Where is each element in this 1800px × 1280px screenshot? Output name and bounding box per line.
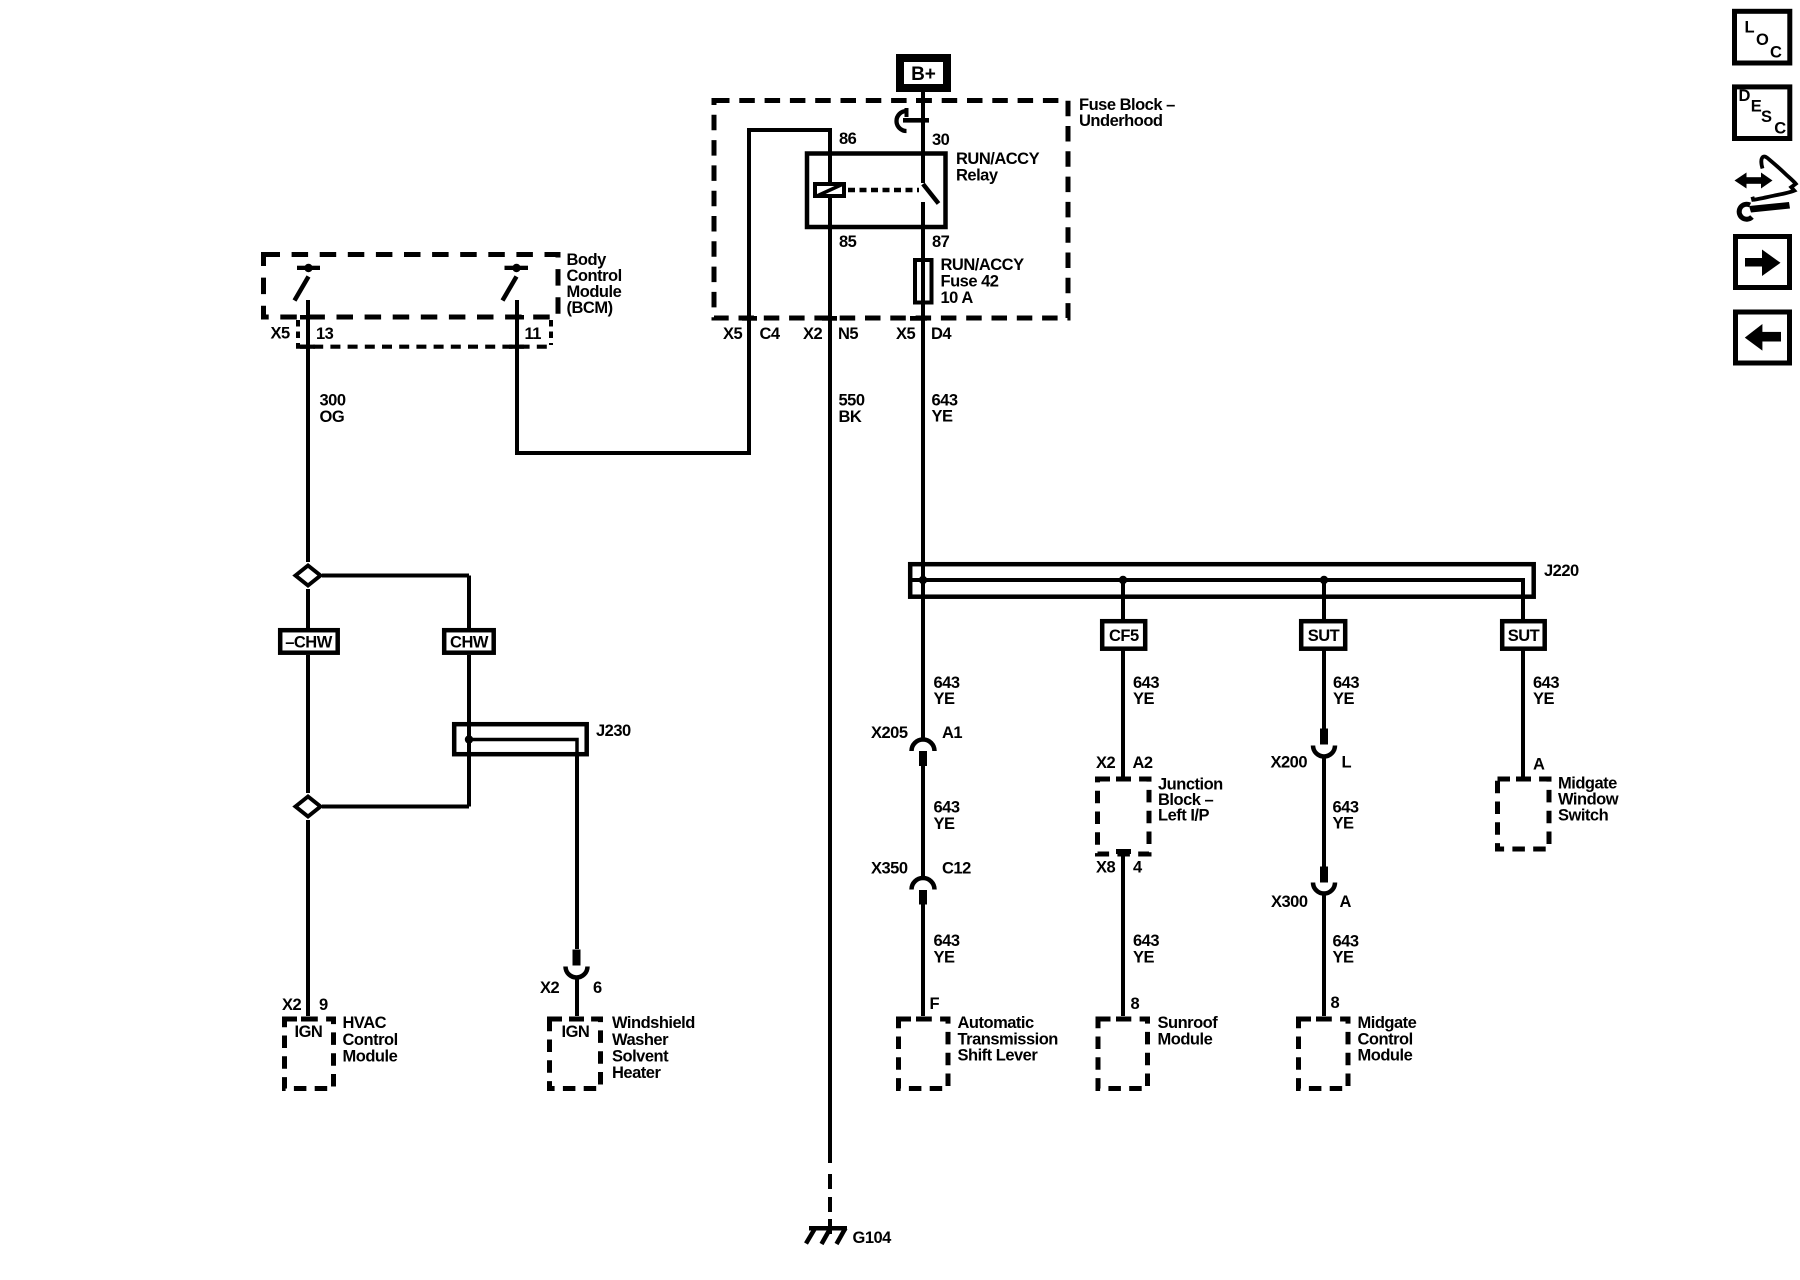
svg-text:S: S xyxy=(1761,108,1772,126)
wire CF5 to junction block xyxy=(1121,649,1125,778)
in-line connector X350 C12 xyxy=(912,878,935,905)
relay switch armature xyxy=(923,184,939,204)
svg-text:YE: YE xyxy=(934,949,956,967)
wire relay pin 85 down (550 BK) xyxy=(828,196,832,1163)
svg-text:YE: YE xyxy=(1133,690,1155,708)
svg-text:IGN: IGN xyxy=(295,1023,323,1041)
svg-text:Heater: Heater xyxy=(612,1064,661,1082)
svg-text:A: A xyxy=(1340,893,1352,911)
splice diamond 2 xyxy=(296,797,321,817)
midgate control module box xyxy=(1299,1019,1349,1089)
svg-text:YE: YE xyxy=(1333,690,1355,708)
svg-text:4: 4 xyxy=(1133,859,1143,877)
svg-text:643: 643 xyxy=(934,799,960,817)
wire diamond2 right branch xyxy=(322,805,469,809)
svg-text:J220: J220 xyxy=(1544,562,1579,580)
svg-text:O: O xyxy=(1756,31,1769,49)
svg-text:X205: X205 xyxy=(871,724,908,742)
svg-text:HVAC: HVAC xyxy=(343,1014,387,1032)
sidebar forward arrow button xyxy=(1736,237,1790,288)
svg-text:B+: B+ xyxy=(911,64,936,85)
svg-text:OG: OG xyxy=(320,408,345,426)
wire CHW branch down through J230 xyxy=(467,576,471,807)
in-line connector X300 A xyxy=(1313,867,1335,894)
ground G104 xyxy=(806,1226,847,1244)
RUN/ACCY fuse 42 symbol xyxy=(915,260,932,303)
svg-text:BK: BK xyxy=(839,408,862,426)
svg-text:(BCM): (BCM) xyxy=(567,299,613,317)
svg-text:L: L xyxy=(1342,754,1352,772)
svg-text:D4: D4 xyxy=(931,325,952,343)
power terminal B+ xyxy=(896,54,951,92)
svg-text:13: 13 xyxy=(316,325,334,343)
sidebar DESC button xyxy=(1735,87,1790,139)
junction block left IP dashed box xyxy=(1098,779,1150,854)
svg-text:Washer: Washer xyxy=(612,1031,669,1049)
svg-text:87: 87 xyxy=(932,233,950,251)
washer solvent heater box xyxy=(550,1019,601,1089)
svg-text:6: 6 xyxy=(593,979,602,997)
wire -CHW to diamond 2 xyxy=(306,655,310,793)
wire J220 to SUT1 xyxy=(1322,580,1326,619)
wire J220 to CF5 xyxy=(1121,580,1125,619)
svg-text:X2: X2 xyxy=(282,996,302,1014)
svg-text:C4: C4 xyxy=(760,325,781,343)
fusible link SUT box 1 xyxy=(1301,621,1345,649)
svg-text:YE: YE xyxy=(1333,815,1355,833)
wire B+ to relay pin 30 xyxy=(921,92,925,183)
RUN/ACCY relay box xyxy=(807,154,946,228)
svg-text:Windshield: Windshield xyxy=(612,1014,695,1032)
midgate window switch box xyxy=(1498,779,1550,849)
svg-text:85: 85 xyxy=(839,233,857,251)
svg-text:G104: G104 xyxy=(853,1229,893,1247)
fusible link CF5 box xyxy=(1102,621,1145,649)
in-line connector X2 6 xyxy=(566,950,588,978)
fusible link -CHW box xyxy=(280,630,338,653)
wire BCM pin 13 down (300 OG) xyxy=(306,300,310,562)
svg-text:C12: C12 xyxy=(942,860,971,878)
svg-text:8: 8 xyxy=(1131,995,1140,1013)
svg-text:11: 11 xyxy=(525,325,542,343)
BCM switch pin 13 xyxy=(295,264,321,301)
junction bar J220 xyxy=(910,564,1533,599)
wire X205 to X350 xyxy=(921,766,925,878)
svg-text:Solvent: Solvent xyxy=(612,1048,669,1066)
fuse block underhood dashed box xyxy=(714,101,1068,319)
svg-text:Left I/P: Left I/P xyxy=(1158,807,1209,825)
wire connector to washer box xyxy=(575,977,579,1016)
svg-text:X5: X5 xyxy=(723,325,743,343)
wire diamond1 to CHW branch xyxy=(322,574,469,578)
svg-text:SUT: SUT xyxy=(1508,627,1540,645)
svg-text:Shift Lever: Shift Lever xyxy=(958,1047,1039,1065)
svg-text:X2: X2 xyxy=(803,325,823,343)
svg-text:Control: Control xyxy=(343,1031,398,1049)
svg-text:10 A: 10 A xyxy=(941,289,974,307)
fusible link CHW box xyxy=(444,630,494,653)
svg-text:X2: X2 xyxy=(1096,754,1116,772)
svg-text:YE: YE xyxy=(1333,949,1355,967)
sunroof module box xyxy=(1098,1019,1148,1089)
Body Control Module dashed box xyxy=(264,255,559,318)
wire diamond1 to -CHW xyxy=(306,589,310,628)
svg-text:86: 86 xyxy=(839,130,857,148)
svg-text:Module: Module xyxy=(343,1048,398,1066)
svg-text:Switch: Switch xyxy=(1558,807,1609,825)
svg-text:643: 643 xyxy=(1133,932,1159,950)
wire relay pin 87 down through fuse to J220 xyxy=(921,202,925,740)
svg-text:9: 9 xyxy=(319,996,328,1014)
relay dashed actuating link xyxy=(848,188,919,193)
svg-text:643: 643 xyxy=(934,932,960,950)
wire BCM pin 11 to relay pin 86 xyxy=(517,130,830,453)
wire X200 to X300 xyxy=(1322,756,1326,869)
svg-text:Relay: Relay xyxy=(956,167,999,185)
svg-text:X2: X2 xyxy=(540,979,560,997)
wire J220 to SUT2 xyxy=(1521,599,1525,619)
svg-text:RUN/ACCY: RUN/ACCY xyxy=(941,256,1025,274)
svg-text:A1: A1 xyxy=(942,724,962,742)
svg-text:Sunroof: Sunroof xyxy=(1158,1014,1219,1032)
automatic transmission shift lever box xyxy=(899,1019,949,1089)
sidebar LOC button xyxy=(1735,11,1790,63)
svg-text:Module: Module xyxy=(1358,1047,1413,1065)
svg-text:550: 550 xyxy=(839,392,865,410)
svg-text:SUT: SUT xyxy=(1308,627,1340,645)
svg-text:Automatic: Automatic xyxy=(958,1014,1034,1032)
sidebar navigation icon xyxy=(1735,157,1796,220)
wire SUT2 to midgate window switch xyxy=(1521,649,1525,777)
svg-text:Fuse 42: Fuse 42 xyxy=(941,273,999,291)
svg-text:L: L xyxy=(1745,19,1755,37)
sidebar back arrow button xyxy=(1736,312,1790,363)
svg-text:X300: X300 xyxy=(1271,893,1308,911)
svg-text:CHW: CHW xyxy=(450,634,489,652)
svg-text:CF5: CF5 xyxy=(1109,627,1139,645)
wire X350 to shift lever xyxy=(921,904,925,1016)
svg-text:300: 300 xyxy=(320,392,346,410)
BCM switch pin 11 xyxy=(503,264,529,301)
wire X300 to midgate control module xyxy=(1322,893,1326,1016)
wire SUT1 to X200 xyxy=(1322,649,1326,731)
svg-text:X5: X5 xyxy=(271,325,291,343)
svg-text:Module: Module xyxy=(1158,1031,1213,1049)
HVAC control module box xyxy=(285,1019,334,1089)
svg-text:N5: N5 xyxy=(838,325,858,343)
fusible link SUT box 2 xyxy=(1502,621,1545,649)
svg-text:IGN: IGN xyxy=(562,1023,590,1041)
wire diamond2 down to HVAC xyxy=(306,820,310,1016)
svg-text:8: 8 xyxy=(1331,994,1340,1012)
svg-text:F: F xyxy=(930,995,940,1013)
svg-text:YE: YE xyxy=(934,815,956,833)
svg-text:J230: J230 xyxy=(596,722,631,740)
svg-text:X5: X5 xyxy=(896,325,916,343)
svg-text:Midgate: Midgate xyxy=(1358,1014,1417,1032)
svg-text:30: 30 xyxy=(932,131,950,149)
svg-text:A2: A2 xyxy=(1133,754,1153,772)
svg-text:C: C xyxy=(1774,120,1786,138)
in-line connector at fuse block B+ entry xyxy=(897,108,930,131)
BCM connector strip xyxy=(296,320,553,349)
svg-text:A: A xyxy=(1533,756,1545,774)
svg-text:RUN/ACCY: RUN/ACCY xyxy=(956,150,1040,168)
svg-text:YE: YE xyxy=(934,690,956,708)
svg-text:Underhood: Underhood xyxy=(1079,112,1163,130)
wire J230 to washer heater xyxy=(575,757,579,950)
svg-text:X8: X8 xyxy=(1096,859,1116,877)
svg-text:C: C xyxy=(1770,44,1782,62)
splice diamond 1 xyxy=(296,566,321,586)
svg-text:YE: YE xyxy=(1533,690,1555,708)
svg-text:YE: YE xyxy=(1133,949,1155,967)
relay coil xyxy=(815,184,844,196)
svg-text:D: D xyxy=(1739,87,1751,105)
in-line connector X205 A1 xyxy=(912,740,935,766)
svg-text:–CHW: –CHW xyxy=(285,634,333,652)
ground wire dashed section xyxy=(828,1174,832,1234)
svg-text:X350: X350 xyxy=(871,860,908,878)
svg-text:YE: YE xyxy=(932,408,954,426)
in-line connector X200 L xyxy=(1313,729,1335,757)
junction bar J230 xyxy=(454,724,587,756)
wire junction block to sunroof xyxy=(1121,854,1125,1016)
svg-text:X200: X200 xyxy=(1271,754,1308,772)
